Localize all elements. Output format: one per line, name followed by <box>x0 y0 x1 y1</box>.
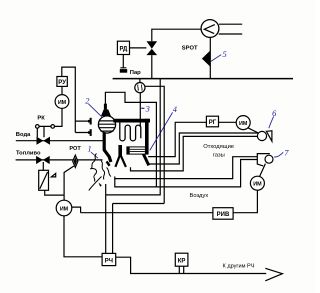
regulator РГ <box>206 116 218 127</box>
furnace right wall <box>145 119 149 154</box>
svg-text:SPOT: SPOT <box>182 46 198 52</box>
valve stem wires <box>37 126 44 137</box>
steam trap <box>135 83 145 93</box>
pressure tap pedestal <box>120 55 127 73</box>
wire W3 to РЧ right <box>112 204 114 254</box>
label 3 <box>141 104 150 113</box>
svg-text:КР: КР <box>178 258 186 264</box>
label Отходящие газы <box>203 144 234 158</box>
wire РГ to ИМ4 <box>219 121 237 123</box>
air duct outer line <box>115 157 257 179</box>
flue duct outer line <box>149 133 258 164</box>
water pipe <box>16 140 104 142</box>
label 7 <box>274 148 289 157</box>
КР stubs to bus <box>179 266 183 273</box>
trap stub to header <box>139 79 141 83</box>
linkage diamond to ИМ2 <box>64 166 74 200</box>
wire РД to steam valve <box>130 47 147 49</box>
level electrode upper <box>88 118 92 125</box>
svg-text:РЧ: РЧ <box>105 258 113 264</box>
corrector КР <box>175 253 188 266</box>
svg-text:4: 4 <box>173 105 177 114</box>
svg-text:РИВ: РИВ <box>217 212 230 218</box>
svg-text:6: 6 <box>272 109 277 118</box>
svg-text:газы: газы <box>213 153 225 159</box>
flame strokes <box>89 154 111 191</box>
label 2 <box>85 97 102 118</box>
svg-text:ИМ: ИМ <box>253 182 262 188</box>
regulator РИВ <box>213 208 233 220</box>
wire ИМ3 to РИВ <box>233 190 257 213</box>
drum downcomer / burner 1 <box>104 133 111 162</box>
rotameter РОТ float symbol <box>73 155 78 167</box>
actuator ИМ1 <box>55 95 69 109</box>
wire burner to РЧ left <box>105 184 107 253</box>
blower fan 7 <box>257 154 273 166</box>
drum (boiler drum 2) <box>98 116 115 133</box>
svg-text:Вода: Вода <box>16 132 31 138</box>
turbine exhaust to header <box>209 37 211 78</box>
svg-text:ИМ: ИМ <box>60 207 69 213</box>
wire РУ to ИМ1 <box>61 86 63 94</box>
smoke exhauster fan 6 <box>257 131 272 141</box>
furnace left wall <box>118 145 122 157</box>
wire furnace to РГ <box>148 122 206 156</box>
svg-text:РГ: РГ <box>209 120 217 126</box>
link fan 7 to ИМ3 <box>260 164 266 177</box>
superheater coil 3 <box>120 122 141 140</box>
actuator ИМ4 <box>236 116 250 130</box>
svg-text:3: 3 <box>145 104 150 113</box>
turbine 5 circle <box>201 20 219 38</box>
svg-text:ИМ: ИМ <box>239 121 248 127</box>
grate 4 <box>127 147 148 154</box>
steam header <box>113 78 293 80</box>
furnace right flare <box>143 154 149 166</box>
wire trap to V3 down to W3 <box>145 86 164 203</box>
wire ИМ1 to valve linkage <box>37 108 62 126</box>
fuel pipe <box>16 159 103 161</box>
air duct inner line <box>115 160 257 187</box>
wire header V2 to W2 <box>106 79 161 195</box>
svg-text:7: 7 <box>284 148 289 157</box>
label 1 <box>88 145 98 159</box>
turbine outlet lines <box>219 24 243 34</box>
svg-text:РК: РК <box>37 116 45 122</box>
svg-text:Топливо: Топливо <box>16 151 41 157</box>
burner nozzle tip <box>107 161 110 165</box>
svg-text:РУ: РУ <box>58 80 66 86</box>
drum steam fitting <box>101 104 111 116</box>
steam valve <box>147 41 158 55</box>
fuel valve <box>36 156 50 164</box>
linkage joint node left <box>36 125 40 129</box>
small flag symbol <box>51 173 55 177</box>
wire РЧ to bottom bus <box>116 257 267 273</box>
steam wire drum to V1 <box>105 92 156 187</box>
steam pipe to turbine <box>152 29 201 78</box>
label 5 <box>211 50 227 61</box>
level electrode lower <box>88 129 92 136</box>
actuator ИМ2 <box>56 200 72 216</box>
SPOT generator triangle <box>202 50 211 67</box>
bus arrowhead <box>265 268 282 281</box>
svg-text:РД: РД <box>119 46 128 52</box>
wire ИМ2 to РИВ line <box>72 207 81 213</box>
svg-text:Пар: Пар <box>130 70 141 76</box>
svg-text:К другим РЧ: К другим РЧ <box>223 264 255 270</box>
furnace left skirt <box>115 156 126 167</box>
svg-text:5: 5 <box>223 50 227 59</box>
actuator ИМ3 <box>250 176 264 190</box>
wire W3 trap to РЧ <box>113 203 165 205</box>
wire ИМ2 РИВ line <box>81 212 213 214</box>
label 4 <box>150 105 177 150</box>
water valve РК <box>37 137 51 145</box>
link ИМ4 to fan 6 <box>248 128 259 133</box>
regulator РУ <box>57 77 67 87</box>
svg-text:Воздух: Воздух <box>190 193 209 199</box>
svg-text:РОТ: РОТ <box>69 146 81 152</box>
regulator РЧ <box>102 253 116 265</box>
flow element (rotameter box) <box>39 170 49 190</box>
coil riser to steam trap <box>139 93 141 127</box>
wire rotameter to ИМ2 <box>45 190 64 195</box>
wire РУ to level-sensor column <box>62 67 88 132</box>
wire ИМ2 to РЧ <box>64 216 102 257</box>
flue duct inner line <box>131 136 258 171</box>
svg-text:ИМ: ИМ <box>58 100 67 106</box>
svg-text:Отходящие: Отходящие <box>203 144 234 150</box>
label 6 <box>269 109 277 128</box>
fuel valve stem <box>42 162 44 170</box>
regulator РД <box>117 41 129 54</box>
linkage joint node right <box>51 125 55 129</box>
furnace top wall <box>113 119 150 123</box>
